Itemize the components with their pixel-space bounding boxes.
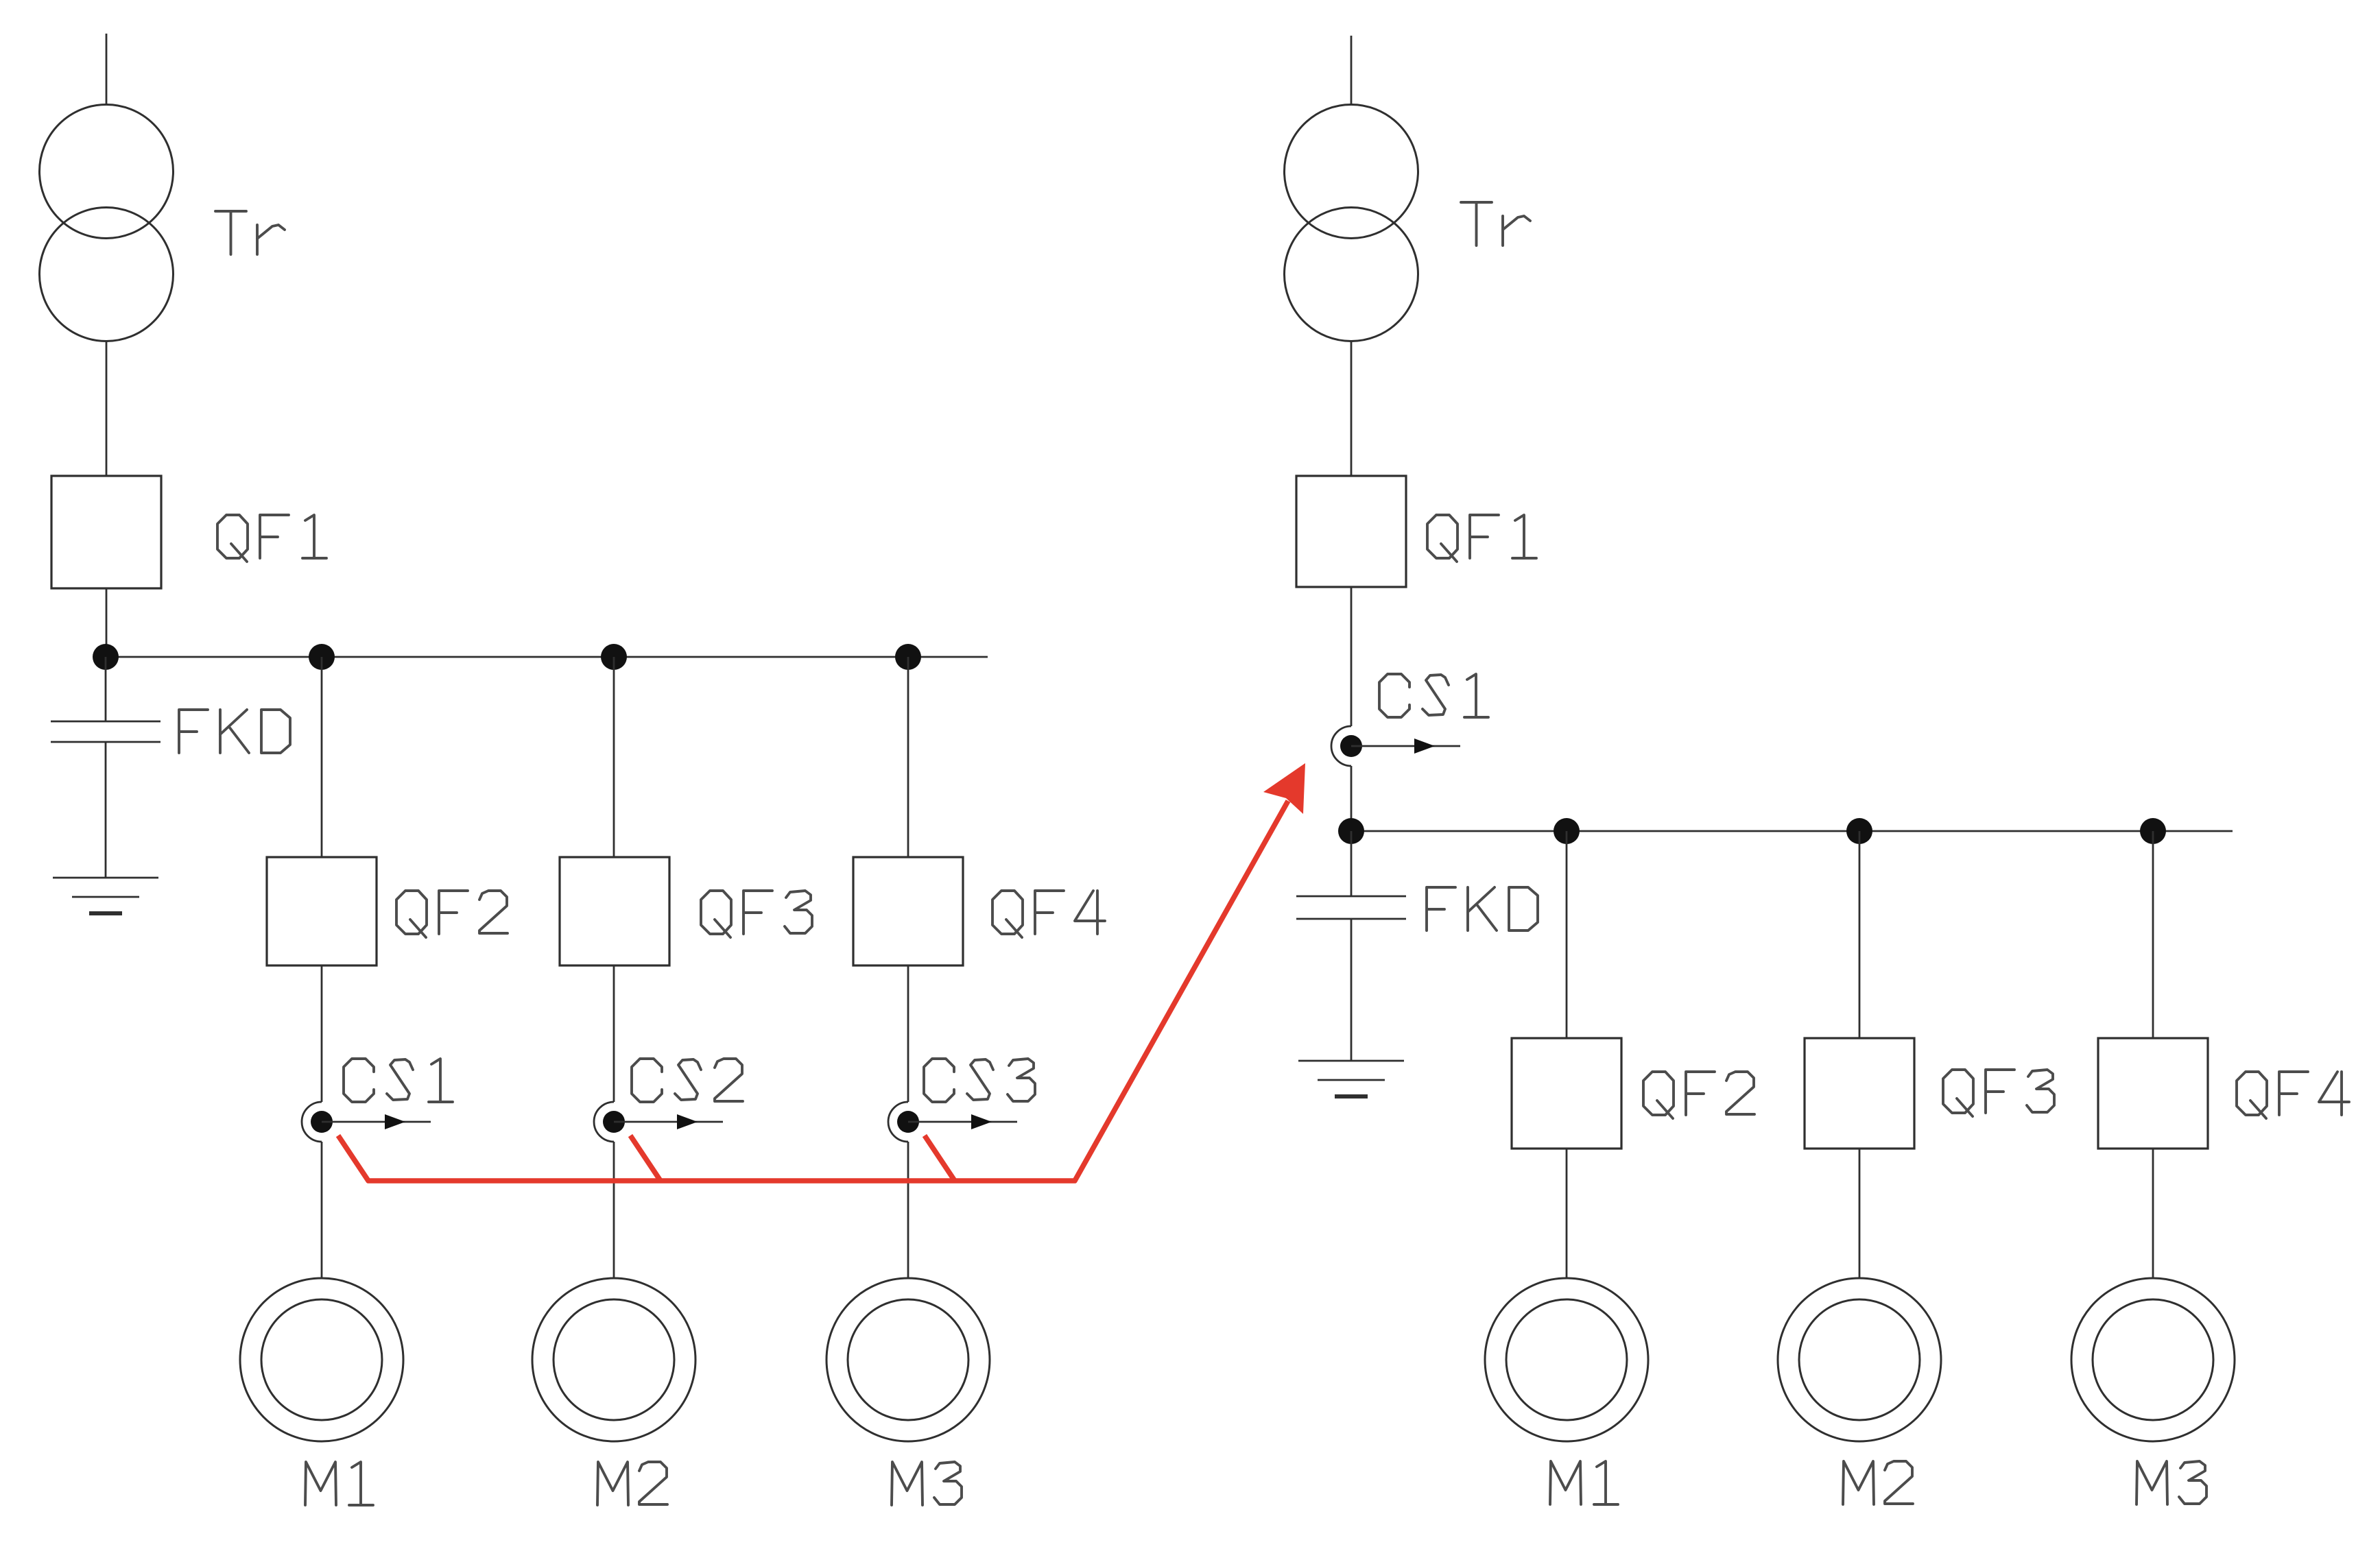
wire: right branch 2 bus to QF3 (1859, 831, 1861, 1038)
wire: left CS1 to motor M1 (321, 1142, 323, 1278)
node: right bus junction 2 (1554, 818, 1580, 844)
motor M2 (right) (1778, 1278, 1941, 1441)
motor M1 (left) (240, 1278, 403, 1441)
label CS2 (left) (632, 1059, 743, 1102)
label FKD (right) (1427, 887, 1538, 930)
breaker QF1 (left) (51, 476, 161, 588)
capacitor FKD (right) (1296, 896, 1406, 919)
wire: left branch 3 bus to QF4 (907, 657, 909, 857)
label QF3 (left) (701, 891, 812, 937)
wire: right transformer to QF1 (1350, 341, 1353, 476)
node: left bus junction 2 (309, 644, 335, 670)
capacitor FKD (left) (51, 721, 160, 742)
wire: right HV pigtail (1350, 36, 1353, 105)
wire: right bus (1351, 830, 2233, 832)
wire: left CS2 to motor M2 (613, 1142, 615, 1278)
wire: right QF3 to motor M2 (1859, 1149, 1861, 1278)
label M3 (left) (892, 1462, 962, 1505)
label CS1 (right) (1379, 674, 1488, 717)
label M1 (right) (1550, 1461, 1618, 1504)
node: left bus junction 4 (895, 644, 921, 670)
wire: right bus to FKD capacitor (1350, 831, 1353, 896)
breaker QF4 (left) (853, 857, 963, 965)
breaker QF2 (left) (267, 857, 377, 965)
wire: right QF2 to motor M1 (1566, 1149, 1568, 1278)
label QF2 (right) (1643, 1072, 1754, 1118)
current sensor CS3 (left) (888, 1102, 1017, 1142)
label QF4 (right) (2237, 1072, 2349, 1118)
label M3 (right) (2137, 1461, 2206, 1504)
wire: left transformer to QF1 (106, 341, 108, 476)
wire: right branch 1 bus to QF2 (1566, 831, 1568, 1038)
label M2 (left) (597, 1462, 667, 1505)
red arrowhead pointing at right CS1 (1263, 763, 1305, 814)
transformer Tr (left) (40, 105, 174, 341)
breaker QF2 (right) (1512, 1038, 1621, 1149)
wire: right capacitor to ground (1350, 919, 1353, 1061)
label M1 (left) (305, 1462, 373, 1505)
wire: left branch 2 bus to QF3 (613, 657, 615, 857)
transformer Tr (right) (1285, 105, 1418, 341)
motor M3 (left) (826, 1278, 990, 1441)
node: right bus junction 4 (2140, 818, 2166, 844)
node: left bus junction 3 (601, 644, 627, 670)
current sensor CS2 (left) (594, 1102, 723, 1142)
breaker QF4 (right) (2098, 1038, 2208, 1149)
wire: left capacitor to ground (105, 742, 107, 878)
label Tr (right) (1461, 202, 1530, 245)
motor M3 (right) (2071, 1278, 2235, 1441)
wire: right CS1 to bus (1350, 766, 1353, 831)
wire: right branch 3 bus to QF4 (2152, 831, 2154, 1038)
wire: left branch 1 bus to QF2 (321, 657, 323, 857)
node: left bus junction 1 (93, 644, 119, 670)
label Tr (left) (215, 211, 285, 254)
label QF1 (left) (217, 515, 326, 562)
wire: red highlight main path CS1 stub to arrow (338, 801, 1288, 1181)
ground (left) (53, 878, 158, 913)
wire: left QF1 to bus (106, 588, 108, 657)
label CS1 (left) (344, 1059, 453, 1102)
wire: left QF2 to CS1 (321, 965, 323, 1102)
breaker QF3 (left) (560, 857, 669, 965)
breaker QF3 (right) (1805, 1038, 1914, 1149)
label FKD (left) (179, 710, 290, 753)
wire: red stub at CS2 (630, 1136, 661, 1181)
wire: left bus (106, 656, 988, 658)
motor M2 (left) (532, 1278, 695, 1441)
label CS3 (left) (924, 1059, 1035, 1102)
wire: left QF4 to CS3 (907, 965, 909, 1102)
label QF1 (right) (1427, 515, 1536, 562)
ground (right) (1298, 1061, 1404, 1096)
wire: red stub at CS3 (925, 1136, 955, 1181)
label M2 (right) (1843, 1461, 1913, 1504)
wire: left CS3 to motor M3 (907, 1142, 909, 1278)
breaker QF1 (right) (1296, 476, 1406, 587)
wire: right QF4 to motor M3 (2152, 1149, 2154, 1278)
node: right bus junction 1 (1338, 818, 1364, 844)
node: right bus junction 3 (1846, 818, 1872, 844)
label QF3 (right) (1943, 1070, 2054, 1116)
current sensor CS1 (right) (1331, 726, 1460, 766)
motor M1 (right) (1485, 1278, 1648, 1441)
current sensor CS1 (left) (302, 1102, 431, 1142)
wire: left bus to FKD capacitor (105, 657, 107, 721)
wire: left HV pigtail (106, 34, 108, 105)
label QF4 (left) (992, 891, 1105, 937)
wire: right QF1 to CS1 (1350, 587, 1353, 726)
label QF2 (left) (396, 891, 508, 937)
wire: left QF3 to CS2 (613, 965, 615, 1102)
